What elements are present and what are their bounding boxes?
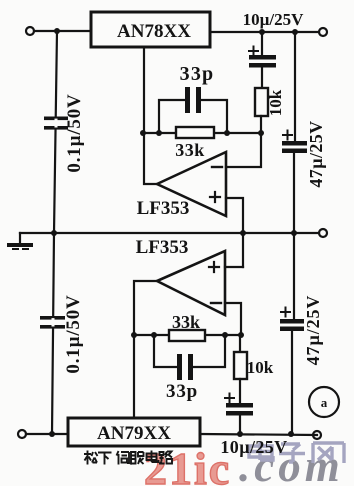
label C4 polarity	[283, 131, 292, 140]
char si	[117, 451, 130, 465]
label C7 polarity	[281, 308, 290, 317]
node 47u bottom junction	[288, 431, 294, 437]
wire bottom rail left	[26, 433, 68, 435]
wire middle rail	[20, 232, 319, 234]
node 33p right bottom	[222, 332, 228, 338]
wire feedback row top	[143, 132, 261, 134]
terminal bottom-left	[18, 430, 26, 438]
wire minus input top	[226, 133, 261, 167]
wire 33p branch top	[159, 100, 227, 133]
wire left vertical column	[52, 31, 57, 434]
capacitor C3 33p top	[185, 87, 201, 113]
char xia	[98, 453, 112, 465]
label title Chinese 松下伺服电路	[84, 451, 172, 465]
svg-text:47µ/25V: 47µ/25V	[303, 295, 323, 366]
svg-text:AN79XX: AN79XX	[97, 423, 171, 444]
svg-text:10µ/25V: 10µ/25V	[220, 437, 287, 457]
node 47u middle junction	[291, 230, 297, 236]
pin plus bottom opamp	[209, 262, 219, 272]
svg-text:0.1µ/50V: 0.1µ/50V	[64, 93, 85, 172]
svg-text:33p: 33p	[166, 381, 198, 402]
svg-text:10µ/25V: 10µ/25V	[243, 10, 305, 29]
svg-text:21ic: 21ic	[144, 443, 231, 486]
terminal input top-left	[26, 27, 34, 35]
terminal bottom-right	[313, 431, 321, 439]
node feedback left bottom	[131, 332, 137, 338]
label C2 polarity	[249, 47, 258, 56]
svg-text:AN78XX: AN78XX	[117, 21, 191, 42]
op-amp U3 LF353 bottom	[157, 251, 225, 315]
watermark Chinese 电子网 gray	[249, 442, 344, 463]
node bottom-left junction	[49, 431, 55, 437]
svg-text:0.1µ/50V: 0.1µ/50V	[63, 294, 84, 373]
resistor R2 10k top	[255, 88, 268, 116]
regulator U4 AN79XX	[68, 418, 200, 446]
wire feedback row bottom	[134, 334, 241, 336]
regulator U1 AN78XX	[91, 12, 210, 47]
node 10u bottom junction	[237, 431, 243, 437]
svg-text:33k: 33k	[175, 140, 205, 160]
char dian	[147, 451, 159, 463]
char lu	[159, 452, 172, 464]
wire U1 box to feedback node	[144, 47, 157, 184]
capacitor C2 10u top	[261, 32, 263, 88]
capacitor C7 47u bottom	[292, 233, 294, 435]
svg-text:LF353: LF353	[136, 237, 189, 258]
wire bottom rail right	[200, 434, 317, 435]
capacitor C5 33p bottom	[177, 354, 193, 380]
svg-text:LF353: LF353	[137, 198, 190, 219]
wire top rail left	[34, 30, 91, 32]
op-amp U2 LF353 top	[157, 152, 226, 216]
pin minus top opamp	[212, 166, 222, 168]
node 10k bottom top	[258, 130, 264, 136]
node 33p left top	[156, 130, 162, 136]
node 10u top junction	[259, 29, 265, 35]
svg-text:33p: 33p	[180, 63, 215, 85]
capacitor C6 10u bottom	[239, 379, 241, 434]
resistor R3 33k bottom	[169, 330, 205, 341]
svg-text:47µ/25V: 47µ/25V	[306, 120, 326, 187]
pin plus top opamp	[210, 192, 220, 202]
wire minus input bottom	[225, 303, 241, 335]
node top-left junction	[54, 28, 60, 34]
wire apex to U4 box bottom	[134, 281, 157, 418]
capacitor C1 0.1u/50V top	[44, 117, 68, 130]
ground	[19, 233, 21, 243]
node opamp plus junction	[240, 230, 246, 236]
resistor R4 10k bottom	[239, 335, 241, 352]
capacitor C8 0.1u/50V bottom	[40, 316, 65, 329]
node 33p left bottom	[151, 332, 157, 338]
node 10k top bottom	[238, 332, 244, 338]
node feedback left top	[140, 130, 146, 136]
wire cap C1 gap blank	[55, 120, 58, 126]
node 33p right top	[224, 130, 230, 136]
capacitor C4 47u top	[294, 32, 295, 233]
svg-text:10k: 10k	[266, 89, 285, 116]
svg-text:a: a	[321, 395, 328, 410]
node 47u top junction	[292, 29, 298, 35]
char fu	[131, 452, 144, 465]
node a marker	[309, 387, 339, 417]
node middle-left junction	[51, 230, 57, 236]
pin minus bottom opamp	[211, 302, 221, 304]
resistor R1 33k top	[176, 127, 214, 138]
wire top rail right	[210, 31, 319, 33]
terminal middle-right	[319, 229, 327, 237]
terminal output top-right	[319, 28, 327, 36]
wire 33p branch bottom	[154, 335, 225, 367]
wire plus input bottom	[225, 266, 243, 268]
label C6 polarity	[225, 394, 234, 403]
svg-text:10k: 10k	[247, 358, 274, 377]
wire plus input top	[226, 198, 243, 267]
watermark 21ic red	[144, 441, 344, 486]
char song	[84, 451, 98, 465]
